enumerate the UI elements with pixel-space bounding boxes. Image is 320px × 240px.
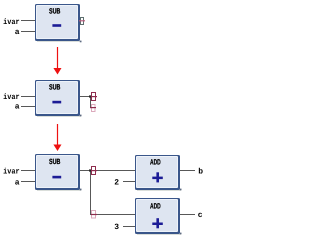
svg-text:ivar: ivar xyxy=(3,93,20,102)
svg-text:ADD: ADD xyxy=(150,158,161,167)
svg-text:SUB: SUB xyxy=(49,6,61,15)
svg-text:SUB: SUB xyxy=(49,83,61,92)
svg-text:3: 3 xyxy=(114,223,119,232)
svg-text:c: c xyxy=(198,211,203,220)
svg-text:ADD: ADD xyxy=(150,201,161,210)
svg-text:ivar: ivar xyxy=(3,168,20,177)
svg-text:b: b xyxy=(198,167,203,176)
svg-text:a: a xyxy=(15,178,20,187)
svg-text:a: a xyxy=(15,28,20,37)
svg-text:SUB: SUB xyxy=(49,157,61,166)
svg-text:a: a xyxy=(15,102,20,111)
svg-text:2: 2 xyxy=(114,179,119,188)
svg-text:ivar: ivar xyxy=(3,18,20,27)
